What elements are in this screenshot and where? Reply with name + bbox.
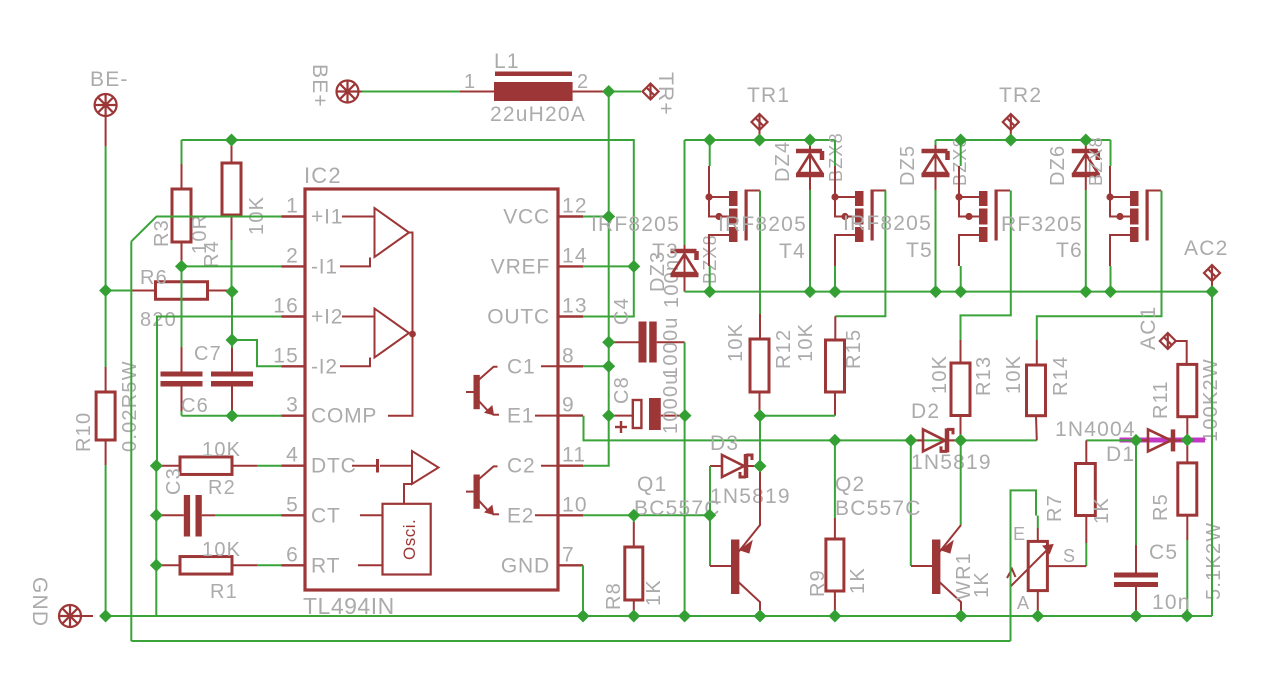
wire AC2 to bus corner (1211, 281, 1213, 292)
wire D2 anode to Q2 base (910, 440, 912, 566)
svg-text:1N5819: 1N5819 (710, 485, 791, 508)
svg-text:5.1K2W: 5.1K2W (1203, 522, 1225, 600)
wire T6 gate down to R14 (1037, 191, 1162, 341)
bus segment magenta (1120, 438, 1206, 443)
svg-text:R12: R12 (773, 329, 795, 369)
wire R3 bottom node to pin2 (182, 265, 282, 267)
wire pin8 to node (583, 365, 609, 367)
svg-text:D3: D3 (710, 432, 739, 455)
connector pad AC1 (1160, 333, 1176, 349)
wire T5 source to bus (960, 266, 962, 292)
wire L1 to TR+ (613, 91, 641, 93)
wire feedback vertical x131 (130, 241, 132, 641)
oscillator box Osci. (383, 504, 431, 575)
svg-text:IRF8205: IRF8205 (718, 213, 807, 236)
pin 1 +I1 (282, 215, 306, 217)
resistor R13 (960, 340, 962, 363)
svg-text:S: S (1063, 546, 1076, 566)
wire T5 gate down to R13 (961, 191, 1011, 341)
comparator 2 inside IC2 (340, 309, 409, 367)
transistor Q internal 2 (466, 466, 558, 516)
svg-text:TR1: TR1 (747, 84, 790, 107)
pin 13 OUTC (558, 315, 583, 317)
wire pin9 E1 run (584, 416, 1037, 441)
svg-text:Q1: Q1 (637, 473, 667, 496)
wire T6 drain from bus (1110, 140, 1112, 166)
wire T3 source to bus (709, 266, 711, 292)
svg-text:14: 14 (562, 244, 588, 267)
resistor R14 (1036, 340, 1038, 365)
svg-text:0.02R5W: 0.02R5W (119, 360, 141, 452)
pin 12 VCC (558, 215, 583, 217)
wire T6 source to bus (1110, 266, 1112, 292)
wire R4 bottom to R6 node (231, 240, 233, 292)
svg-text:1K: 1K (971, 571, 993, 598)
svg-text:C6: C6 (181, 395, 209, 417)
svg-text:DZ4: DZ4 (772, 141, 794, 182)
wire DZ5 to source bus (935, 190, 937, 292)
wire RT to oscillator (358, 564, 383, 566)
zener diode DZ4 (809, 140, 811, 145)
pin 7 GND (558, 564, 583, 566)
svg-text:R11: R11 (1150, 380, 1172, 419)
svg-text:BZX8: BZX8 (1086, 136, 1106, 186)
svg-text:13: 13 (562, 295, 588, 318)
svg-text:1: 1 (286, 195, 299, 218)
wire D1 node left (1086, 439, 1136, 441)
svg-text:7: 7 (562, 543, 575, 566)
svg-text:R15: R15 (843, 329, 865, 369)
pin 5 CT (282, 514, 306, 516)
svg-text:CT: CT (311, 504, 341, 527)
svg-text:6: 6 (286, 543, 299, 566)
connector pad AC2 (1204, 265, 1220, 281)
svg-text:10K: 10K (795, 323, 817, 362)
resistor R3 (181, 140, 183, 164)
svg-text:+I2: +I2 (311, 306, 343, 329)
svg-text:C8: C8 (611, 376, 633, 404)
comparator output net to COMP (388, 233, 413, 416)
inductor L1 (460, 91, 494, 93)
wire feedback to WR1 top (1011, 490, 1037, 641)
plus sign of C8 (615, 421, 627, 433)
svg-text:12: 12 (562, 195, 588, 218)
wire feedback bottom run (131, 640, 1010, 642)
wire +I1 feedback diagonal (131, 217, 281, 242)
connector pad BE- (95, 94, 117, 116)
wire VCC to C1 C2 rail x608 (608, 217, 610, 416)
resistor R10 (105, 367, 107, 392)
capacitor C4 (609, 341, 639, 343)
svg-text:T4: T4 (779, 240, 806, 263)
op-amp IC2 TL494 body (305, 189, 558, 590)
transistor T5 (960, 140, 962, 166)
svg-text:10n: 10n (1152, 591, 1191, 614)
wire T3 gate down (759, 191, 761, 315)
svg-text:-I2: -I2 (311, 355, 338, 378)
wire right edge vertical (1211, 292, 1213, 616)
zener diode DZ5 (935, 140, 937, 146)
wire R10 to GND bus (105, 465, 107, 616)
wire R5 to ground bus (1186, 540, 1188, 616)
svg-text:C5: C5 (1149, 541, 1178, 564)
diode D1 (1136, 439, 1147, 441)
svg-text:2: 2 (577, 71, 589, 93)
wire R6 right node down (231, 292, 233, 340)
svg-text:C3: C3 (163, 467, 185, 495)
wire DZ3 top branch (684, 140, 686, 247)
svg-text:D2: D2 (911, 400, 940, 423)
svg-text:RT: RT (311, 554, 340, 577)
wire ground bus (106, 615, 1212, 617)
svg-text:T3: T3 (652, 240, 679, 263)
svg-text:BE-: BE- (90, 68, 129, 91)
svg-text:E2: E2 (507, 504, 534, 527)
svg-text:BE+: BE+ (308, 64, 331, 108)
svg-text:COMP: COMP (311, 405, 377, 428)
resistor R11 (1178, 364, 1197, 416)
trimmer WR1 (1007, 528, 1086, 616)
resistor R8 (633, 515, 635, 522)
svg-text:E: E (1013, 524, 1026, 544)
svg-text:R6: R6 (140, 267, 168, 289)
schottky diode D3 (710, 465, 721, 467)
wire T4 gate down to R15 (835, 191, 885, 317)
pin 3 COMP (282, 415, 306, 417)
svg-text:11: 11 (562, 444, 586, 467)
pin 8 C1 (558, 365, 583, 367)
wire C6 top branch (181, 266, 183, 347)
svg-text:C7: C7 (194, 343, 222, 365)
svg-text:R5: R5 (1150, 493, 1172, 521)
svg-text:Osci.: Osci. (400, 519, 419, 560)
svg-text:1000u: 1000u (660, 372, 682, 434)
schottky diode D2 (911, 439, 922, 441)
resistor R6 (156, 282, 208, 300)
zener diode DZ3 (671, 245, 699, 287)
wire BE- stem (105, 115, 107, 146)
wire CT to oscillator (360, 514, 383, 516)
resistor R5 (1186, 440, 1188, 463)
transistor Q1 (710, 466, 760, 616)
capacitor C8 (609, 415, 633, 417)
svg-text:GND: GND (501, 554, 550, 577)
connector pad TR2 (1003, 114, 1019, 130)
svg-text:VCC: VCC (503, 206, 550, 229)
wire DZ6 to source bus (1085, 190, 1087, 292)
svg-text:BC557C: BC557C (835, 497, 922, 520)
DTC input symbol (352, 459, 412, 473)
wire R12 node down to D3 (759, 416, 761, 466)
wire pin16 from rail x157 (157, 317, 282, 467)
svg-text:IC2: IC2 (304, 163, 342, 188)
svg-text:C4: C4 (611, 297, 633, 325)
svg-text:3: 3 (286, 394, 299, 417)
svg-text:Q2: Q2 (835, 473, 865, 496)
pin 11 C2 (558, 465, 583, 467)
svg-text:TR+: TR+ (654, 72, 677, 116)
svg-text:10K: 10K (725, 323, 747, 362)
connector pad TR1 (752, 114, 768, 130)
pin 9 E1 (558, 414, 583, 416)
pin 6 RT (282, 564, 306, 566)
pin 4 DTC (282, 465, 306, 467)
svg-text:C2: C2 (507, 455, 535, 478)
wire COMP node (181, 411, 183, 416)
zener diode DZ6 (1072, 145, 1100, 187)
svg-text:R9: R9 (807, 569, 829, 597)
svg-text:1N4004: 1N4004 (1055, 418, 1136, 441)
svg-text:R14: R14 (1050, 356, 1072, 396)
capacitor C5 (1114, 573, 1158, 578)
wire VCC node vertical (608, 92, 610, 217)
svg-text:T5: T5 (906, 239, 933, 262)
svg-text:R8: R8 (603, 582, 625, 610)
svg-text:GND: GND (28, 577, 51, 627)
svg-text:R13: R13 (973, 356, 995, 396)
transistor Q internal 1 (466, 366, 558, 415)
svg-text:22uH20A: 22uH20A (490, 103, 586, 126)
node comparator outputs (409, 331, 416, 338)
comparator 1 inside IC2 (340, 208, 409, 266)
svg-text:DTC: DTC (311, 455, 357, 478)
wire pin13 to VREF rail (583, 266, 634, 316)
svg-text:10K: 10K (929, 355, 951, 394)
wire R15 bottom to R12 node (760, 415, 835, 417)
svg-text:10K: 10K (246, 196, 268, 235)
svg-text:A: A (1017, 593, 1030, 613)
svg-text:R1: R1 (210, 581, 238, 603)
wire T4 source to bus (834, 266, 836, 292)
resistor R1 (156, 564, 180, 566)
wire pin12 to node (583, 216, 609, 218)
svg-text:4: 4 (286, 444, 299, 467)
svg-text:10K: 10K (202, 439, 241, 461)
svg-text:TR2: TR2 (999, 84, 1042, 107)
svg-text:R4: R4 (201, 240, 223, 268)
svg-text:1000u: 1000u (660, 316, 682, 378)
wire R7 to WR1 wiper (1085, 543, 1087, 566)
svg-text:L1: L1 (494, 50, 520, 73)
wire DZ4 to source bus (809, 190, 811, 292)
resistor R12 (759, 314, 761, 339)
wire R2 to pin4 (257, 465, 282, 467)
svg-text:DZ6: DZ6 (1047, 145, 1069, 186)
resistor R15 (834, 316, 836, 340)
svg-text:VREF: VREF (491, 255, 550, 278)
svg-text:R2: R2 (208, 477, 236, 499)
wire pin14 to VREF rail (583, 265, 634, 267)
svg-text:R7: R7 (1044, 494, 1066, 522)
svg-text:1K: 1K (643, 579, 665, 606)
svg-text:D1: D1 (1106, 443, 1135, 466)
transistor T6 (1130, 190, 1149, 243)
transistor T4 (855, 190, 874, 243)
transistor T3 (709, 140, 711, 166)
svg-text:-I1: -I1 (311, 255, 338, 278)
wire pin10 E2 run (583, 514, 710, 516)
wire AC1 to R11 (1175, 341, 1187, 364)
svg-text:16: 16 (273, 295, 299, 318)
pin 2 -I1 (282, 265, 306, 267)
capacitor C7 (231, 340, 233, 348)
wire BE+ to L1 (357, 91, 362, 93)
wire D1 anode down to C5 (1135, 440, 1137, 572)
connector pad GND (59, 605, 81, 627)
svg-text:8: 8 (562, 344, 575, 367)
svg-text:1K: 1K (847, 567, 869, 594)
wire T4 drain from bus (834, 140, 836, 166)
wire TR1 bus (685, 139, 836, 141)
svg-text:1K: 1K (1091, 497, 1113, 524)
svg-text:IRF8205: IRF8205 (843, 212, 932, 235)
capacitor C3 (156, 514, 184, 516)
wire DZ3 to source bus (684, 287, 686, 292)
wire D3 anode to E2 node (709, 466, 711, 515)
svg-text:820: 820 (140, 309, 177, 331)
wire D2 cathode to Q2 emitter (960, 440, 962, 466)
svg-text:OUTC: OUTC (487, 306, 550, 329)
resistor R4 (231, 140, 233, 163)
svg-text:T6: T6 (1056, 239, 1083, 262)
connector pad BE+ (337, 81, 359, 103)
svg-text:C1: C1 (507, 355, 535, 378)
svg-text:15: 15 (273, 344, 299, 367)
svg-text:1: 1 (464, 71, 476, 93)
svg-text:DZ5: DZ5 (897, 145, 919, 186)
pin 14 VREF (558, 265, 583, 267)
svg-text:E1: E1 (507, 405, 534, 428)
svg-text:10: 10 (562, 493, 588, 516)
resistor R2 (156, 465, 180, 467)
capacitor C6 (181, 347, 183, 372)
wire C4 right to ground rail (684, 342, 686, 616)
resistor R9 (834, 440, 836, 518)
wire pin15 jog (232, 340, 282, 366)
svg-text:AC1: AC1 (1137, 306, 1160, 350)
svg-text:R10: R10 (73, 412, 95, 452)
svg-text:R3: R3 (151, 219, 173, 247)
wire pin7 to ground bus (582, 565, 584, 616)
svg-text:10K: 10K (202, 539, 241, 561)
transistor Q2 (960, 466, 962, 525)
wire Q1 base from E2 node (709, 515, 711, 566)
connector pad TR+ (643, 84, 659, 100)
svg-text:10K: 10K (1003, 355, 1025, 394)
resistor R7 (1085, 440, 1087, 463)
svg-text:RF3205: RF3205 (1001, 213, 1083, 236)
wire VREF rail y140 (182, 140, 634, 266)
svg-text:AC2: AC2 (1184, 237, 1228, 260)
wire pin11 to node (583, 416, 609, 466)
pin 16 +I2 (282, 315, 306, 317)
svg-text:5: 5 (286, 493, 299, 516)
svg-text:+I1: +I1 (311, 206, 343, 229)
wire TR2 bus (936, 139, 1111, 141)
wire source bus y292 (685, 291, 1213, 293)
pin 15 -I2 (282, 365, 306, 367)
pin 10 E2 (558, 514, 583, 516)
wire buffer to oscillator (404, 484, 412, 504)
wire BE- node to R6 (106, 290, 131, 292)
buffer triangle inside IC2 (412, 451, 439, 484)
wire BE- node vertical to R10 (105, 291, 107, 368)
wire GND pad stub (80, 615, 93, 617)
svg-text:9: 9 (562, 394, 575, 417)
svg-text:2: 2 (286, 244, 299, 267)
svg-text:1N5819: 1N5819 (911, 451, 992, 474)
wire DTC rail x156 (155, 466, 157, 616)
